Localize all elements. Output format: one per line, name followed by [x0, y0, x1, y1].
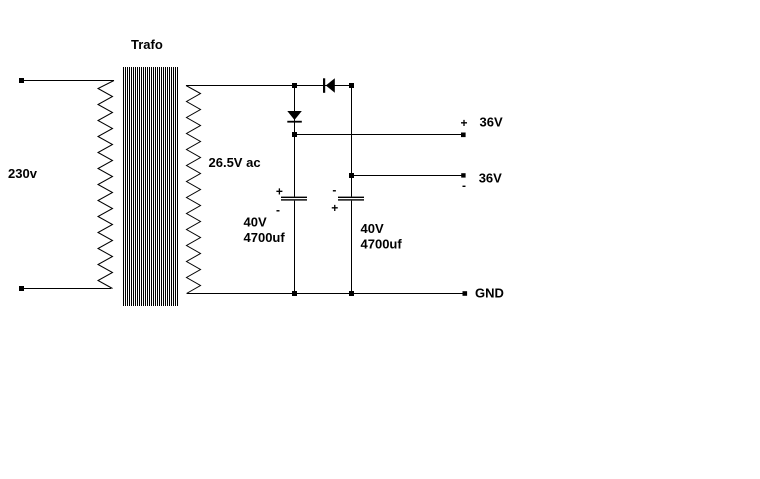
diode D1 triangle: [326, 78, 335, 92]
terminal GND output: [463, 291, 468, 296]
node junction GND at branch A: [292, 291, 297, 296]
terminal +36V output: [461, 133, 466, 138]
svg-text:4700uf: 4700uf: [244, 230, 286, 245]
wire -36V rail: [352, 175, 464, 177]
diode D2 cathode bar: [287, 121, 302, 123]
wire +36V rail: [294, 134, 463, 136]
svg-text:36V: 36V: [480, 115, 503, 130]
svg-text:40V: 40V: [361, 221, 384, 236]
node junction GND at branch B: [349, 291, 354, 296]
capacitor C2 top plate: [338, 197, 364, 198]
wire primary bottom: [22, 288, 111, 290]
svg-text:-: -: [462, 178, 466, 192]
wire branch B lower (below C2): [351, 201, 353, 294]
svg-text:+: +: [461, 116, 468, 130]
terminal primary top: [19, 78, 24, 83]
capacitor C1 top plate: [281, 197, 307, 198]
terminal -36V output: [461, 173, 465, 177]
terminal primary bottom: [19, 286, 24, 291]
capacitor C1 bottom plate: [281, 199, 307, 200]
svg-text:36V: 36V: [479, 171, 502, 186]
svg-text:Trafo: Trafo: [131, 37, 163, 52]
diode D1 cathode bar: [323, 78, 325, 93]
node junction at secondary top and D2 branch: [292, 83, 297, 88]
node junction top of negative rail branch: [349, 83, 354, 88]
diode D2 triangle: [287, 111, 302, 120]
wire branch A lower (below C1): [294, 201, 296, 294]
wire vertical branch A (x=294): [294, 86, 296, 197]
wire secondary top: [186, 85, 351, 87]
wire primary top: [22, 80, 114, 82]
svg-text:4700uf: 4700uf: [361, 236, 403, 251]
svg-text:40V: 40V: [244, 215, 267, 230]
svg-text:+: +: [276, 185, 283, 199]
transformer T1 secondary winding: [186, 86, 201, 294]
wire GND rail: [187, 293, 464, 295]
svg-text:-: -: [276, 203, 280, 217]
wire vertical branch B (x=351.5): [351, 86, 353, 197]
svg-text:+: +: [331, 201, 338, 215]
capacitor C2 bottom plate: [338, 199, 364, 200]
node junction at +36V takeoff: [292, 132, 297, 137]
transformer T1 primary winding: [98, 81, 114, 289]
transformer T1 core: [124, 67, 178, 306]
svg-text:230v: 230v: [8, 166, 38, 181]
svg-text:-: -: [332, 183, 336, 197]
node junction at -36V takeoff: [349, 173, 354, 178]
svg-text:26.5V ac: 26.5V ac: [209, 155, 261, 170]
svg-text:GND: GND: [475, 286, 504, 301]
